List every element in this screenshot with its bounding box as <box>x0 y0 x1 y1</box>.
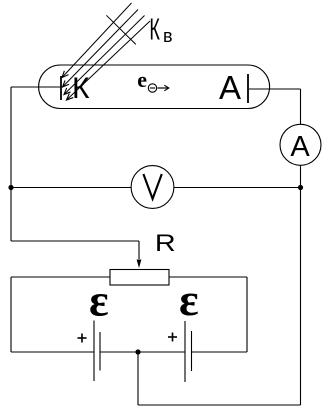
wire: bottom segment 3 <box>192 351 248 353</box>
anode A electrode <box>247 74 249 103</box>
wire: down to ammeter <box>300 89 302 124</box>
wire: bottom segment 2 <box>100 351 185 353</box>
light ray 4 <box>67 21 151 100</box>
label V voltmeter <box>143 174 161 199</box>
wiper arrow onto resistor <box>138 241 140 259</box>
battery E1 short plate <box>99 332 101 371</box>
svg-text:ε: ε <box>89 275 109 326</box>
wire: ammeter to node <box>300 165 302 187</box>
wire: anode lead <box>249 88 301 90</box>
wavefront mark <box>106 15 135 44</box>
svg-text:e: e <box>137 67 147 92</box>
wire: box right side <box>246 277 248 352</box>
electron arrow <box>158 87 169 89</box>
svg-text:К: К <box>72 72 90 105</box>
wire: up to battery midpoint <box>137 352 139 405</box>
svg-text:ε: ε <box>179 274 199 325</box>
electron charge circle <box>148 84 156 92</box>
label Kv light quantum <box>149 13 172 47</box>
node: left voltmeter junction <box>8 185 13 190</box>
wire: box top right <box>169 276 247 278</box>
battery E2 long plate <box>184 321 186 382</box>
wire: box left side <box>10 277 12 352</box>
cathode K electrode <box>60 76 62 100</box>
svg-text:A: A <box>290 131 310 163</box>
node: right voltmeter junction <box>298 185 303 190</box>
plus sign of E1 <box>78 337 87 339</box>
node: battery midpoint <box>135 349 140 354</box>
phototube envelope <box>39 65 270 109</box>
battery E2 short plate <box>191 331 193 371</box>
svg-text:К: К <box>149 13 160 47</box>
wire: voltmeter line right <box>174 187 301 189</box>
light ray 3 <box>64 16 145 95</box>
light ray 2 <box>63 10 139 88</box>
svg-text:в: в <box>163 26 173 46</box>
svg-text:R: R <box>155 229 176 256</box>
svg-text:A: A <box>219 69 241 106</box>
wire: cathode lead <box>11 86 61 88</box>
wire: voltmeter line left <box>11 187 131 189</box>
wire: bottom segment 1 <box>11 351 94 353</box>
wire: wiper horizontal <box>11 240 139 242</box>
resistor R body <box>110 270 169 286</box>
wire: left vertical <box>10 87 12 241</box>
light ray 1 <box>62 3 132 78</box>
wire: right vertical down <box>300 188 302 406</box>
plus sign of E2 <box>168 336 177 338</box>
voltmeter circle <box>131 166 174 209</box>
ammeter circle <box>280 124 321 165</box>
wire: box top left <box>11 276 110 278</box>
wire: bottom return <box>138 404 301 406</box>
battery E1 long plate <box>93 321 95 382</box>
